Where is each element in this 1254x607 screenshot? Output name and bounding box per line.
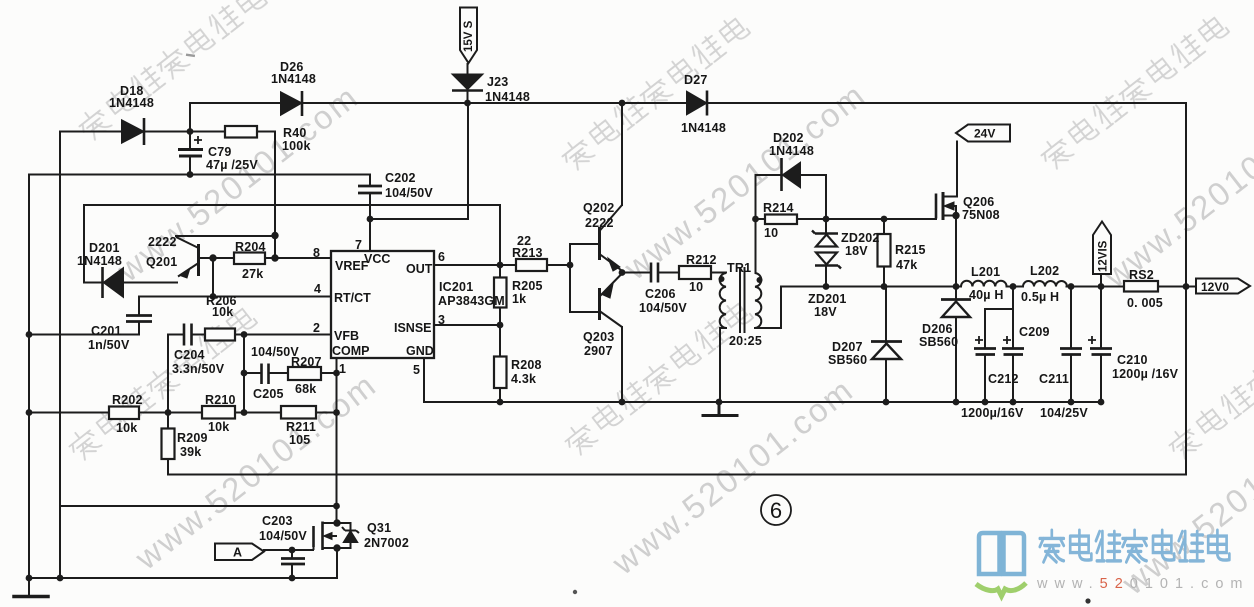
node Q201 base (209, 254, 216, 261)
svg-text:R40: R40 (283, 126, 307, 140)
capacitor C201 (126, 316, 152, 322)
node L201/L202 (1010, 283, 1017, 290)
node C209 ground (1010, 399, 1017, 406)
node C203 top (289, 547, 296, 554)
svg-text:40µ H: 40µ H (969, 288, 1004, 302)
transistor Q203 (600, 275, 623, 328)
svg-text:10k: 10k (116, 421, 137, 435)
wire Q201 base drop (212, 258, 214, 297)
ground symbol center (703, 402, 737, 416)
svg-text:IC201: IC201 (439, 280, 473, 294)
svg-text:VFB: VFB (334, 329, 359, 343)
inductor L202 (1023, 281, 1067, 287)
resistor R215 (878, 234, 891, 267)
svg-text:R207: R207 (291, 355, 322, 369)
wire 12V0 stub (1186, 286, 1196, 288)
svg-text:1N4148: 1N4148 (77, 254, 122, 268)
svg-text:100k: 100k (282, 139, 311, 153)
wire C79 stubs (189, 132, 191, 175)
node TR1 ground (716, 399, 723, 406)
resistor R210 (202, 406, 235, 419)
node y506/COMP (333, 503, 340, 510)
svg-text:3: 3 (438, 313, 445, 327)
wire R209 stubs (167, 413, 169, 475)
node R202/R210/R209 (165, 409, 172, 416)
IC U201 AP3843GM box (331, 251, 434, 358)
svg-text:3.3n/50V: 3.3n/50V (172, 362, 225, 376)
node C203 bottom (289, 575, 296, 582)
svg-text:R208: R208 (511, 358, 542, 372)
node D206 ground (953, 399, 960, 406)
svg-text:0. 005: 0. 005 (1127, 296, 1163, 310)
capacitor C203 (281, 559, 305, 565)
svg-text:1k: 1k (512, 292, 526, 306)
svg-text:R211: R211 (286, 420, 316, 434)
svg-text:AP3843GM: AP3843GM (438, 294, 505, 308)
capacitor C79 (178, 136, 203, 156)
node R204 right (271, 254, 278, 261)
node Q201 collector (271, 232, 278, 239)
zener ZD202 (812, 231, 838, 247)
inductor L201 (961, 281, 1007, 287)
wire D202 right drop (825, 175, 827, 219)
wire y205 row (OUT clamp loop) (84, 205, 500, 283)
page number circle 6 (761, 495, 791, 525)
svg-text:C203: C203 (262, 514, 293, 528)
wire TR1 primary bottom to ground (720, 328, 726, 402)
node C211 ground (1068, 399, 1075, 406)
wire C203 stubs (291, 550, 293, 578)
svg-text:Q202: Q202 (583, 201, 614, 215)
connector 12V0 (1196, 279, 1250, 295)
wire VREF pin8 row (198, 257, 331, 259)
node COMP R207 (333, 370, 340, 377)
wire driver base rail (570, 244, 600, 312)
wire R207 to COMP (321, 372, 337, 374)
node RS2 out / right rail (1183, 283, 1190, 290)
svg-text:4: 4 (314, 282, 321, 296)
svg-text:2: 2 (313, 321, 320, 335)
svg-text:105: 105 (289, 433, 310, 447)
transistor Q31 2N7002 (314, 522, 338, 551)
svg-text:18V: 18V (845, 244, 868, 258)
svg-text:39k: 39k (180, 445, 201, 459)
svg-text:Q206: Q206 (963, 195, 994, 209)
svg-text:www.520101.com: www.520101.com (1036, 576, 1249, 592)
wire Q206 source drop (943, 216, 956, 287)
svg-text:12V0: 12V0 (1201, 280, 1229, 294)
svg-text:ZD201: ZD201 (808, 292, 847, 306)
wire D207 vertical (885, 287, 887, 403)
svg-text:2N7002: 2N7002 (364, 536, 409, 550)
wire ZD stack stubs (825, 219, 827, 287)
diode J23 (452, 75, 483, 91)
svg-text:R212: R212 (686, 253, 717, 267)
wire D18/R40 row (60, 131, 275, 133)
wire R214 row to Q206 gate (756, 218, 937, 220)
wire C211 vertical (1070, 287, 1072, 403)
wire Q201 collector (176, 235, 275, 237)
wire C202 stubs / VCC pin7 (369, 175, 371, 252)
svg-text:1N4148: 1N4148 (485, 90, 530, 104)
wire TR1 secondary top / D202 left vertical (755, 175, 757, 273)
node R214 right (823, 216, 830, 223)
node Q31 source (333, 544, 340, 551)
diode D26 (281, 91, 302, 116)
node Q203 ground (619, 399, 626, 406)
resistor R40 (225, 126, 257, 138)
node Q202 collector on bus (619, 100, 626, 107)
transformer TR1 secondary (755, 273, 761, 328)
node rail A bottom (26, 575, 33, 582)
svg-text:1N4148: 1N4148 (681, 121, 726, 135)
node D206 top (953, 283, 960, 290)
node C79 top (187, 128, 194, 135)
wire RT/CT pin4 row (139, 296, 331, 298)
svg-text:104/50V: 104/50V (639, 301, 687, 315)
svg-text:R205: R205 (512, 279, 543, 293)
node C212 ground (982, 399, 989, 406)
resistor R209 (162, 429, 175, 460)
node ZD bottom (823, 283, 830, 290)
transistor Q202 (600, 205, 623, 271)
wire C205 row (244, 372, 288, 374)
svg-text:COMP: COMP (332, 344, 370, 358)
svg-text:R213: R213 (512, 246, 543, 260)
svg-text:20:25: 20:25 (729, 334, 762, 348)
wire VFB pin2 row (244, 334, 331, 336)
wire A tag to Q31 gate (264, 549, 313, 551)
wire R202/R210/R211 row (29, 412, 337, 414)
wire C204/R206 row (168, 335, 244, 413)
diode D27 (687, 91, 707, 116)
node VFB left (241, 331, 248, 338)
svg-text:18V: 18V (814, 305, 837, 319)
wire Q31 body diode loop (337, 523, 351, 548)
node L202 out (1068, 283, 1075, 290)
svg-text:VCC: VCC (364, 252, 390, 266)
node R210/VFB drop (241, 409, 248, 416)
svg-text:SB560: SB560 (919, 335, 958, 349)
wire VCC link to J23 (370, 103, 468, 219)
svg-text:C201: C201 (91, 324, 122, 338)
wire D202 row (756, 174, 827, 176)
node gate R215 (881, 216, 888, 223)
svg-text:104/50V: 104/50V (385, 186, 433, 200)
svg-text:R204: R204 (235, 240, 266, 254)
wire Q203 collector drop to ground (621, 327, 623, 402)
wire left rail A (x29) (28, 175, 30, 579)
svg-text:1N4148: 1N4148 (109, 96, 154, 110)
scan specks (186, 53, 1091, 603)
svg-text:D201: D201 (89, 241, 120, 255)
wire C201 stubs and return (29, 297, 139, 335)
wire COMP pin1 vertical (336, 358, 338, 523)
wire Q31 drain/source stubs (323, 523, 338, 548)
node C210 ground (1098, 399, 1105, 406)
svg-text:7: 7 (355, 238, 362, 252)
node R211/COMP (333, 409, 340, 416)
connector 24V (956, 125, 1010, 142)
svg-text:4.3k: 4.3k (511, 372, 536, 386)
resistor R202 (109, 407, 139, 420)
diode D207 (871, 342, 902, 360)
logo site name (stylized) (1040, 530, 1230, 562)
resistor R208 (494, 357, 507, 389)
svg-text:R214: R214 (763, 201, 794, 215)
wire left rail B (x60) (59, 132, 61, 579)
capacitor C204 (184, 324, 192, 346)
svg-text:D206: D206 (922, 322, 953, 336)
svg-text:0.5µ H: 0.5µ H (1021, 290, 1059, 304)
svg-text:C210: C210 (1117, 353, 1148, 367)
svg-text:A: A (233, 546, 242, 560)
svg-text:10k: 10k (208, 420, 229, 434)
svg-text:1N4148: 1N4148 (271, 72, 316, 86)
node R214 left (752, 216, 759, 223)
node C205 left (241, 370, 248, 377)
svg-text:C79: C79 (208, 145, 232, 159)
capacitor C212 (974, 336, 996, 355)
wire TR1 secondary bottom out (755, 287, 781, 329)
wire y506 row (60, 505, 337, 507)
svg-text:Q203: Q203 (583, 330, 614, 344)
diode D18 (122, 118, 144, 145)
svg-text:L202: L202 (1030, 264, 1059, 278)
svg-text:24V: 24V (974, 127, 995, 141)
capacitor C202 (358, 186, 382, 193)
wire ISNSE pin3 row (434, 324, 500, 326)
svg-text:104/25V: 104/25V (1040, 406, 1088, 420)
svg-text:1N4148: 1N4148 (769, 144, 814, 158)
svg-text:10: 10 (689, 280, 703, 294)
wire y175 row (C79 bottom to C202) (29, 174, 370, 176)
wire x275 vertical (R40 to VREF node) (274, 132, 276, 259)
logo book icon (979, 533, 1024, 574)
resistor RS2 (1124, 281, 1158, 292)
svg-text:2222: 2222 (148, 235, 177, 249)
wire R215 stubs (883, 219, 885, 287)
node rail A / C201 (26, 331, 33, 338)
svg-text:1: 1 (339, 362, 346, 376)
svg-text:1n/50V: 1n/50V (88, 338, 130, 352)
svg-text:Q31: Q31 (367, 521, 391, 535)
TR1 phase dot primary (719, 276, 725, 282)
svg-text:ZD202: ZD202 (841, 231, 880, 245)
mosfet Q206 (936, 192, 956, 220)
wire ground rail (424, 401, 1101, 403)
svg-text:75N08: 75N08 (962, 208, 1000, 222)
resistor R207 (288, 367, 321, 380)
node ISNSE (497, 322, 504, 329)
svg-text:12VIS: 12VIS (1098, 240, 1110, 272)
node VCC pin7 (367, 216, 374, 223)
wire OUT pin6 row (434, 264, 570, 266)
svg-text:GND: GND (406, 344, 434, 358)
node emitters (619, 269, 626, 276)
svg-text:1200µ/16V: 1200µ/16V (961, 406, 1024, 420)
capacitor C210 (1088, 336, 1112, 355)
svg-text:C206: C206 (645, 287, 676, 301)
transistor Q201 (176, 237, 199, 278)
svg-text:D207: D207 (832, 340, 863, 354)
wire Q202 collector drop from bus (621, 103, 623, 205)
svg-text:15V S: 15V S (463, 20, 475, 52)
svg-text:C202: C202 (385, 171, 416, 185)
svg-text:2907: 2907 (584, 344, 613, 358)
resistor R206 (205, 329, 235, 341)
wire J23 stub from 15VS (467, 64, 469, 103)
wire bus drop to C79 node (189, 103, 191, 132)
resistor R214 (765, 215, 797, 225)
zener ZD201 (815, 253, 841, 269)
svg-text:47µ /25V: 47µ /25V (206, 158, 258, 172)
transformer TR1 primary (720, 273, 726, 328)
wire R205/R208 vertical (499, 265, 501, 402)
wire R212 to TR1 (711, 272, 726, 274)
node rail A / R202 (26, 409, 33, 416)
svg-text:OUT: OUT (406, 262, 433, 276)
node D207 ground (883, 399, 890, 406)
diode D201 (103, 267, 124, 298)
wire GND pin5 drop (423, 358, 425, 402)
wire Q206 drain to 24V (943, 142, 957, 197)
wire output bus row (781, 286, 1186, 288)
svg-text:R209: R209 (177, 431, 208, 445)
node base to RT/CT (210, 293, 217, 300)
node C79 bottom (187, 171, 194, 178)
wire emitter node to C206 (622, 272, 679, 274)
diode Q31 body zener (342, 527, 359, 542)
svg-text:SB560: SB560 (828, 353, 867, 367)
svg-text:ISNSE: ISNSE (394, 321, 432, 335)
svg-text:2222: 2222 (585, 216, 614, 230)
svg-text:10: 10 (764, 226, 778, 240)
wire C212/C209 tee (985, 287, 1013, 403)
svg-text:C212: C212 (988, 372, 1019, 386)
resistor R211 (281, 406, 316, 419)
svg-text:RT/CT: RT/CT (334, 291, 371, 305)
capacitor C205 (262, 364, 269, 385)
svg-text:TR1: TR1 (727, 261, 751, 275)
capacitor C206 (651, 263, 658, 283)
svg-text:5: 5 (413, 363, 420, 377)
svg-text:C204: C204 (174, 348, 205, 362)
wire feedback long row (168, 474, 1186, 476)
svg-text:D202: D202 (773, 131, 804, 145)
wire right rail (x1186) (1185, 103, 1187, 475)
node Q31 drain (333, 519, 340, 526)
connector 15V S (460, 8, 477, 64)
svg-text:47k: 47k (896, 258, 917, 272)
resistor R213 (516, 259, 547, 271)
node OUT R205 (497, 262, 504, 269)
svg-text:68k: 68k (295, 382, 316, 396)
svg-text:R202: R202 (112, 393, 143, 407)
node rail B bottom (57, 575, 64, 582)
node J23 on bus (464, 100, 471, 107)
wire ground stub bottom-left (28, 578, 30, 595)
capacitor C209 (1002, 336, 1024, 355)
wire D206 vertical (955, 287, 957, 403)
wire Q201 emitter row to D201 (84, 282, 177, 284)
resistor R205 (494, 278, 507, 308)
connector A (215, 544, 264, 561)
logo green swoosh (976, 583, 1026, 596)
svg-text:6: 6 (770, 498, 782, 523)
svg-text:www.520101.com: www.520101.com (1114, 390, 1254, 602)
svg-text:L201: L201 (971, 265, 1000, 279)
resistor R212 (679, 266, 711, 279)
svg-text:6: 6 (438, 250, 445, 264)
node 12V1S/C210 (1098, 283, 1105, 290)
resistor R204 (234, 253, 265, 265)
capacitor C211 (1060, 349, 1082, 355)
node R215 bottom (881, 283, 888, 290)
svg-text:8: 8 (313, 246, 320, 260)
diode D202 (782, 158, 801, 191)
wire bottom rail (29, 548, 337, 578)
wire top supply bus (190, 102, 1186, 104)
svg-text:C211: C211 (1039, 372, 1069, 386)
svg-text:R215: R215 (895, 243, 926, 257)
svg-text:D27: D27 (684, 73, 708, 87)
svg-text:C205: C205 (253, 387, 284, 401)
svg-text:R210: R210 (205, 393, 236, 407)
svg-text:RS2: RS2 (1129, 268, 1154, 282)
wire VFB node vertical (243, 335, 245, 413)
svg-text:J23: J23 (487, 75, 508, 89)
node Q206 source (952, 212, 959, 219)
svg-text:10k: 10k (212, 305, 233, 319)
svg-text:1200µ /16V: 1200µ /16V (1112, 367, 1179, 381)
svg-text:27k: 27k (242, 267, 263, 281)
transformer TR1 core (740, 267, 745, 333)
svg-text:Q201: Q201 (146, 255, 177, 269)
svg-text:C209: C209 (1019, 325, 1050, 339)
node R208 ground (497, 399, 504, 406)
TR1 phase dot secondary (757, 277, 763, 283)
wire C210 / 12V1S vertical (1100, 274, 1102, 402)
svg-text:104/50V: 104/50V (259, 529, 307, 543)
diode D206 (941, 300, 971, 318)
node driver base (567, 262, 574, 269)
ground bottom-left (14, 595, 48, 599)
connector 12V1S (1093, 222, 1111, 275)
